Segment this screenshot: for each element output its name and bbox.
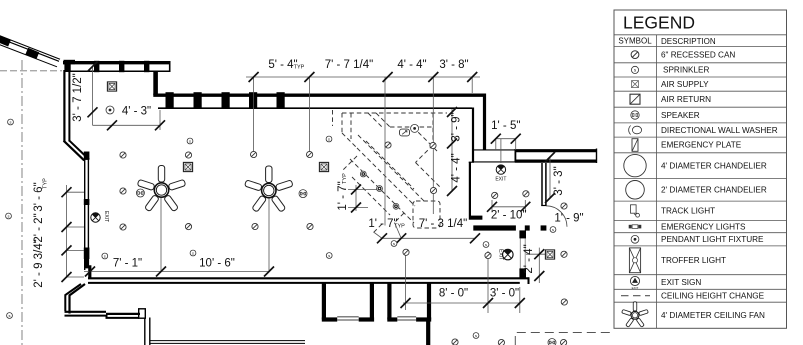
svg-text:EXIT: EXIT	[498, 249, 504, 260]
svg-text:3' - 3": 3' - 3"	[553, 166, 565, 195]
svg-text:DESCRIPTION: DESCRIPTION	[661, 37, 716, 46]
svg-text:EXIT: EXIT	[495, 177, 506, 183]
svg-text:6" RECESSED CAN: 6" RECESSED CAN	[661, 50, 735, 59]
svg-text:DIRECTIONAL WALL WASHER: DIRECTIONAL WALL WASHER	[661, 126, 778, 135]
svg-text:2' - 4": 2' - 4"	[523, 244, 535, 273]
svg-text:EMERGENCY PLATE: EMERGENCY PLATE	[661, 141, 742, 150]
svg-text:CEILING HEIGHT CHANGE: CEILING HEIGHT CHANGE	[661, 291, 765, 300]
svg-text:4' DIAMETER CHANDELIER: 4' DIAMETER CHANDELIER	[661, 161, 767, 170]
svg-text:EXIT: EXIT	[103, 211, 109, 222]
svg-text:EXIT: EXIT	[632, 286, 639, 290]
svg-text:7' - 7 1/4": 7' - 7 1/4"	[325, 59, 373, 71]
svg-text:3' - 7 1/2": 3' - 7 1/2"	[72, 73, 84, 121]
svg-text:2' - 2": 2' - 2"	[33, 213, 45, 242]
svg-text:2' DIAMETER CHANDELIER: 2' DIAMETER CHANDELIER	[661, 186, 767, 195]
svg-text:4' DIAMETER CEILING FAN: 4' DIAMETER CEILING FAN	[661, 311, 765, 320]
svg-text:7' - 3 1/4": 7' - 3 1/4"	[419, 218, 467, 230]
svg-text:7' - 1": 7' - 1"	[113, 258, 142, 270]
svg-text:EXIT SIGN: EXIT SIGN	[661, 278, 701, 287]
svg-text:TYP: TYP	[394, 224, 405, 230]
svg-text:4' - 3": 4' - 3"	[122, 106, 151, 118]
svg-text:3' - 0": 3' - 0"	[490, 288, 519, 300]
svg-text:10' - 6": 10' - 6"	[199, 258, 235, 270]
svg-text:3' - 8": 3' - 8"	[439, 59, 468, 71]
svg-text:PENDANT LIGHT FIXTURE: PENDANT LIGHT FIXTURE	[661, 235, 764, 244]
svg-text:TRACK LIGHT: TRACK LIGHT	[661, 207, 715, 216]
svg-text:AIR SUPPLY: AIR SUPPLY	[661, 80, 709, 89]
svg-text:2' - 10": 2' - 10"	[491, 210, 527, 222]
svg-text:3' - 9": 3' - 9"	[451, 112, 463, 141]
svg-text:TYP: TYP	[43, 178, 49, 189]
svg-text:1' - 7": 1' - 7"	[337, 181, 349, 210]
svg-text:TROFFER LIGHT: TROFFER LIGHT	[661, 256, 726, 265]
svg-text:8' - 0": 8' - 0"	[439, 288, 468, 300]
svg-text:1' - 9": 1' - 9"	[554, 213, 583, 225]
svg-text:1' - 5": 1' - 5"	[491, 120, 520, 132]
svg-text:AIR RETURN: AIR RETURN	[661, 95, 711, 104]
svg-text:TYP: TYP	[342, 173, 348, 184]
svg-text:4' - 4": 4' - 4"	[451, 153, 463, 182]
svg-text:SPRINKLER: SPRINKLER	[663, 66, 709, 75]
svg-text:2' - 9 3/4": 2' - 9 3/4"	[33, 239, 45, 287]
svg-text:LEGEND: LEGEND	[623, 13, 695, 33]
svg-text:SPEAKER: SPEAKER	[661, 111, 700, 120]
svg-text:SYMBOL: SYMBOL	[618, 37, 652, 46]
svg-text:4' - 4": 4' - 4"	[397, 59, 426, 71]
svg-text:EMERGENCY LIGHTS: EMERGENCY LIGHTS	[661, 222, 746, 231]
svg-text:TYP: TYP	[294, 65, 305, 71]
